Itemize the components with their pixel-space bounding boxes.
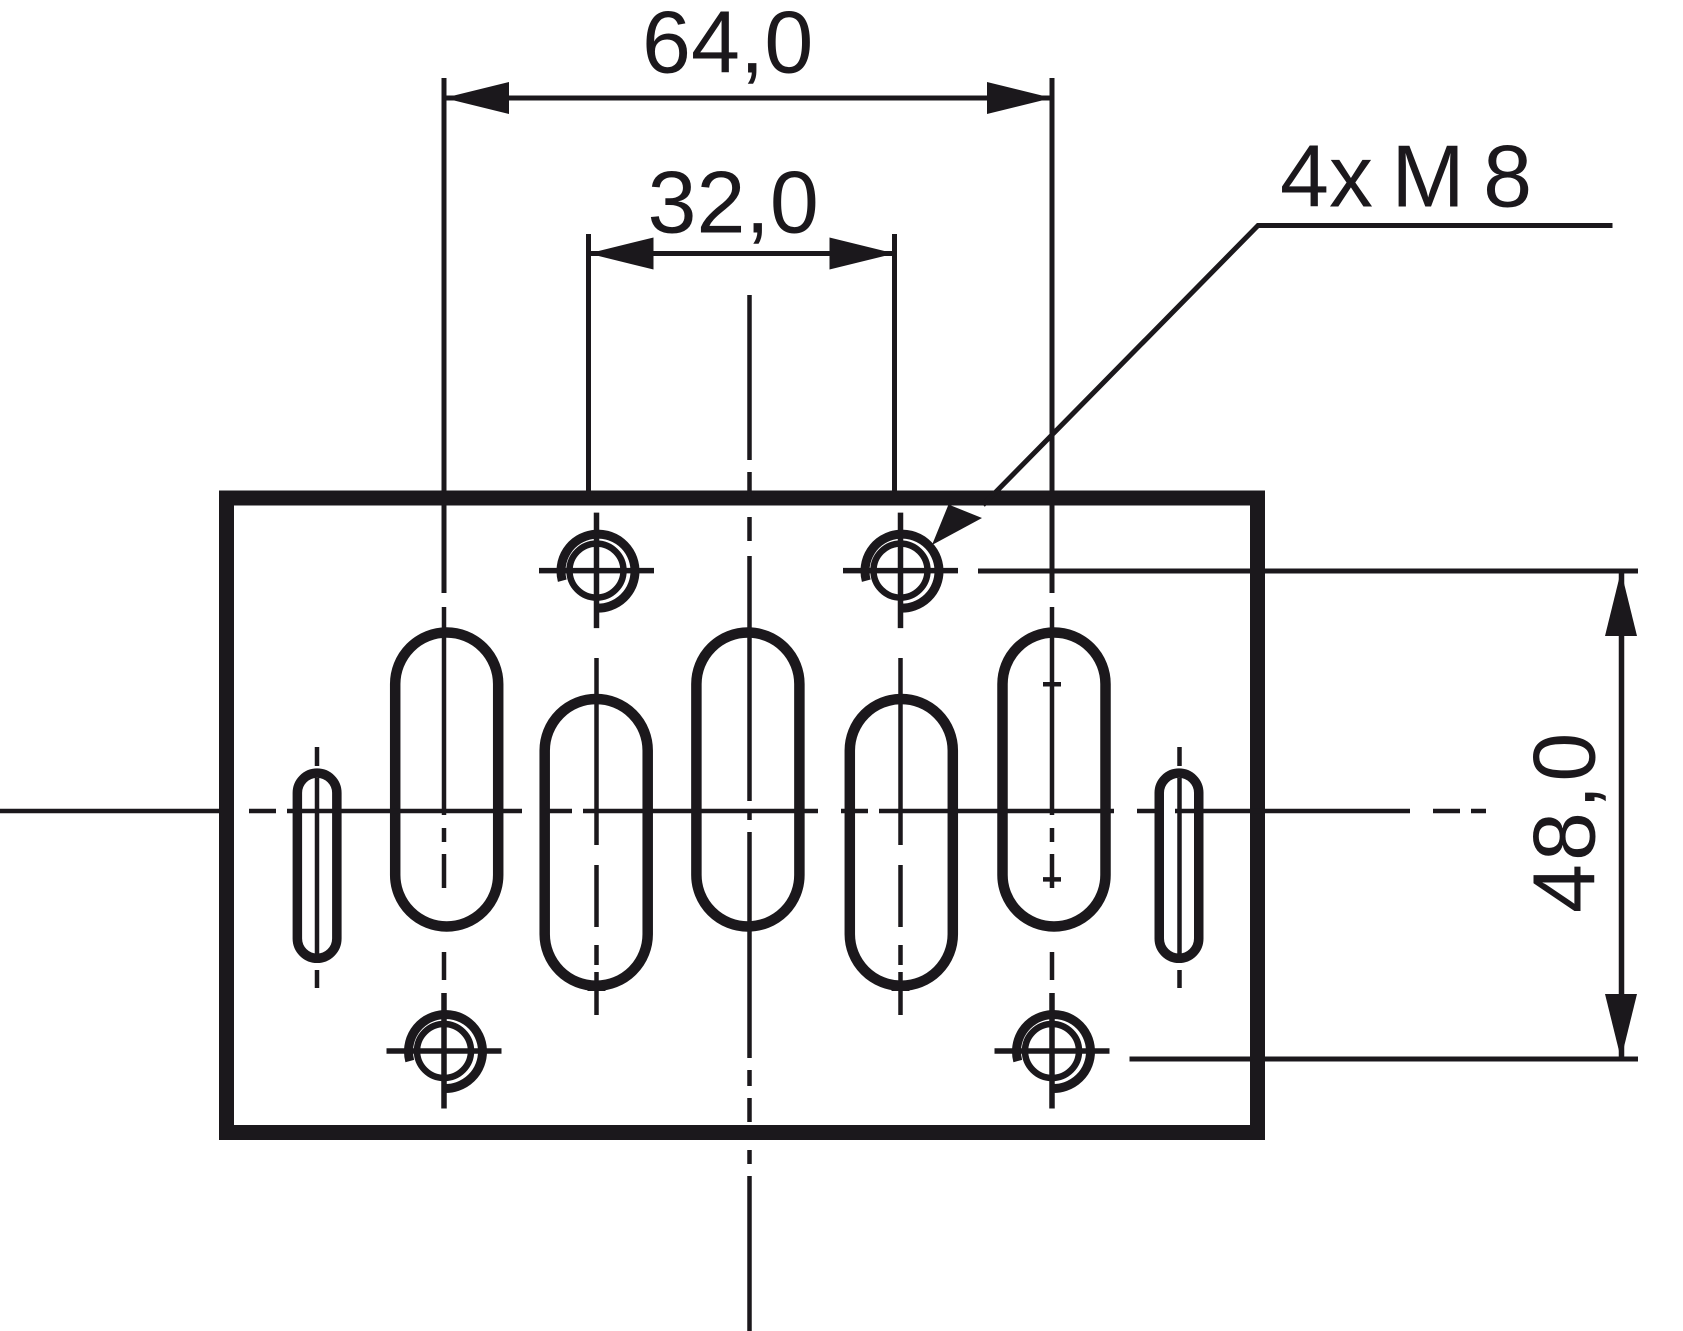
svg-text:48,0: 48,0 <box>1515 730 1614 913</box>
svg-text:4x M 8: 4x M 8 <box>1280 127 1532 226</box>
svg-text:64,0: 64,0 <box>642 0 813 92</box>
svg-text:32,0: 32,0 <box>648 153 819 252</box>
